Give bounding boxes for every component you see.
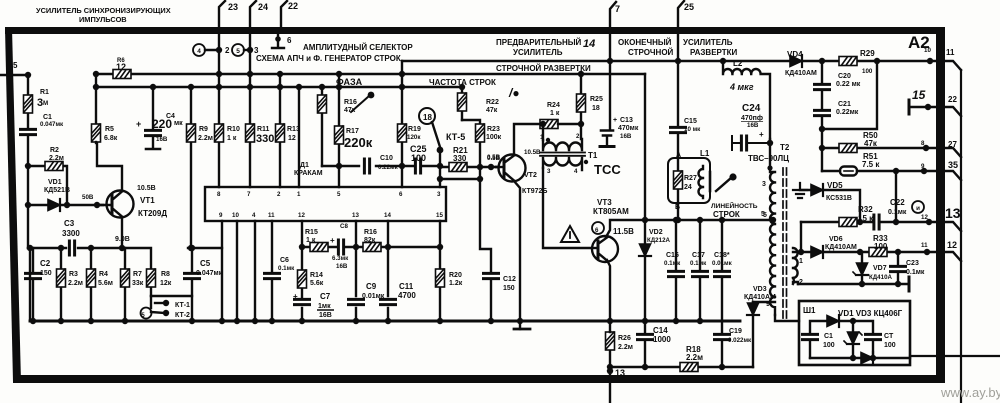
svg-text:0.1мк: 0.1мк bbox=[690, 260, 707, 267]
capacitor C23 bbox=[897, 252, 899, 284]
rail y74 bbox=[96, 73, 645, 75]
node dot 61,248 bbox=[58, 245, 64, 251]
svg-text:R26: R26 bbox=[618, 335, 631, 342]
resistor R26 bbox=[609, 332, 611, 367]
transistor VT1 bbox=[107, 191, 134, 218]
wire node 5 bbox=[0, 74, 28, 76]
svg-text:VD1: VD1 bbox=[48, 179, 62, 186]
circled 5 bbox=[232, 44, 244, 56]
svg-text:1: 1 bbox=[799, 258, 803, 265]
svg-text:1.2к: 1.2к bbox=[449, 280, 463, 287]
capacitor C25 bbox=[415, 159, 420, 173]
resistor R17 bbox=[338, 74, 340, 187]
test point KT-2 bbox=[151, 312, 164, 313]
svg-text:4: 4 bbox=[574, 168, 578, 175]
diode VD2r zener vertical bbox=[852, 344, 854, 358]
svg-text:C11: C11 bbox=[399, 282, 414, 291]
inductor L1 bbox=[699, 166, 704, 198]
svg-text:12: 12 bbox=[288, 135, 296, 142]
svg-text:ИМПУЛЬСОВ: ИМПУЛЬСОВ bbox=[79, 15, 127, 24]
svg-text:C10: C10 bbox=[380, 155, 393, 162]
row y252 bbox=[798, 251, 936, 253]
wire VT2 emitter bbox=[514, 181, 520, 321]
svg-text:УСИЛИТЕЛЬ: УСИЛИТЕЛЬ bbox=[683, 38, 733, 47]
svg-text:18: 18 bbox=[423, 113, 432, 122]
wire hook ext 35 bbox=[945, 171, 961, 180]
svg-text:15: 15 bbox=[912, 88, 926, 102]
svg-text:АМПЛИТУДНЫЙ СЕЛЕКТОР: АМПЛИТУДНЫЙ СЕЛЕКТОР bbox=[303, 43, 413, 52]
svg-text:23: 23 bbox=[228, 2, 238, 12]
svg-text:100: 100 bbox=[823, 342, 835, 349]
svg-text:C1: C1 bbox=[824, 333, 833, 340]
svg-text:1: 1 bbox=[540, 134, 544, 141]
wire node B to y220 bbox=[677, 203, 679, 220]
wire R2 row bbox=[28, 166, 67, 205]
svg-text:2.2м: 2.2м bbox=[68, 280, 83, 287]
svg-text:Б: Б bbox=[675, 204, 680, 211]
terminal bar right of row284 bbox=[908, 277, 911, 291]
svg-text:R2: R2 bbox=[50, 147, 59, 154]
svg-text:2: 2 bbox=[576, 133, 580, 140]
svg-text:16В: 16В bbox=[336, 263, 348, 270]
resistor R9 bbox=[190, 87, 192, 248]
T2 bottom into rectifier bbox=[775, 315, 799, 321]
circled 4 bbox=[193, 44, 205, 56]
bottom sub-row y367 bbox=[610, 366, 753, 368]
diode VD1r bbox=[827, 315, 839, 327]
diode VD3 bbox=[752, 302, 754, 367]
wire pin11 col / capacitor C6 bbox=[271, 221, 273, 321]
node dot 28,205 bbox=[25, 202, 31, 208]
svg-text:C17: C17 bbox=[692, 252, 705, 259]
svg-text:R4: R4 bbox=[99, 271, 108, 278]
svg-text:0.22 мк: 0.22 мк bbox=[836, 81, 861, 88]
svg-text:5.6м: 5.6м bbox=[98, 280, 113, 287]
lead 25 bbox=[678, 1, 684, 28]
svg-text:6: 6 bbox=[399, 191, 403, 198]
wire C21 box right bbox=[822, 61, 877, 129]
svg-text:330: 330 bbox=[453, 154, 467, 163]
L1 box bbox=[668, 158, 710, 203]
resistor R15 bbox=[310, 243, 328, 252]
svg-text:5.6к: 5.6к bbox=[310, 280, 324, 287]
svg-text:R32: R32 bbox=[858, 205, 873, 214]
wire VT3 collector bbox=[606, 220, 773, 237]
wire hook ext 13 bbox=[945, 222, 961, 231]
svg-text:КРАКАМ: КРАКАМ bbox=[294, 170, 323, 177]
node dot 28,166 bbox=[25, 163, 31, 169]
svg-text:3300: 3300 bbox=[62, 229, 80, 238]
resistor R25 bbox=[580, 74, 582, 139]
svg-text:РАЗВЕРТКИ: РАЗВЕРТКИ bbox=[690, 48, 738, 57]
svg-text:11: 11 bbox=[268, 212, 275, 219]
resistor R6 bbox=[113, 70, 131, 79]
wire hook ext 11 bbox=[945, 61, 961, 70]
resistor R51 row bbox=[822, 170, 936, 172]
svg-text:14: 14 bbox=[384, 212, 391, 219]
IC U1 box bbox=[205, 187, 446, 221]
capacitor C24 bbox=[732, 136, 770, 150]
svg-text:27: 27 bbox=[948, 140, 957, 149]
svg-text:12к: 12к bbox=[160, 280, 172, 287]
svg-text:47к: 47к bbox=[864, 139, 878, 148]
wire hook ext 27 bbox=[945, 148, 961, 157]
svg-text:9: 9 bbox=[921, 163, 925, 170]
svg-text:0.01мк: 0.01мк bbox=[712, 260, 733, 267]
svg-text:СТРОЧНОЙ РАЗВЕРТКИ: СТРОЧНОЙ РАЗВЕРТКИ bbox=[496, 64, 591, 73]
svg-text:R19: R19 bbox=[408, 126, 421, 133]
svg-text:9: 9 bbox=[766, 301, 770, 308]
capacitor C16 bbox=[675, 220, 677, 321]
svg-text:ПРЕДВАРИТЕЛЬНЫЙ: ПРЕДВАРИТЕЛЬНЫЙ bbox=[496, 38, 582, 47]
svg-text:C15: C15 bbox=[684, 118, 697, 125]
T2 polarity dot bbox=[767, 165, 772, 170]
svg-text:5: 5 bbox=[761, 211, 765, 218]
svg-text:R29: R29 bbox=[860, 49, 875, 58]
svg-text:КД212А: КД212А bbox=[647, 237, 671, 244]
svg-text:220к: 220к bbox=[344, 135, 373, 150]
svg-text:C9: C9 bbox=[366, 282, 377, 291]
diode VD3r bbox=[861, 352, 873, 364]
svg-text:0.22мк: 0.22мк bbox=[836, 109, 859, 116]
svg-text:470мк: 470мк bbox=[618, 125, 639, 132]
wire 13 exit down bbox=[609, 321, 611, 403]
capacitor C18 bbox=[721, 220, 723, 321]
ground VT2 emitter bbox=[514, 328, 530, 331]
svg-text:5: 5 bbox=[236, 48, 240, 55]
resistor R23 bbox=[479, 142, 481, 167]
row y222 bbox=[801, 221, 936, 223]
svg-text:4 мкг: 4 мкг bbox=[729, 82, 754, 92]
svg-text:6.8к: 6.8к bbox=[104, 135, 118, 142]
resistor R13 col bbox=[279, 74, 281, 187]
svg-text:8: 8 bbox=[921, 140, 925, 147]
wire row y62 bbox=[402, 60, 936, 62]
svg-text:R13: R13 bbox=[287, 126, 300, 133]
resistor R16 trimmer bbox=[321, 87, 323, 166]
wire row222 left drop bbox=[800, 222, 802, 252]
capacitor C1 bbox=[21, 129, 36, 134]
svg-text:R15: R15 bbox=[305, 229, 318, 236]
wire pin1 col bbox=[298, 87, 300, 187]
wire VT3 emitter bbox=[607, 260, 610, 321]
svg-text:4: 4 bbox=[252, 212, 256, 219]
resistor R18 bbox=[680, 363, 698, 372]
svg-text:С8: С8 bbox=[340, 223, 348, 230]
svg-text:12: 12 bbox=[921, 214, 928, 221]
svg-text:10 мк: 10 мк bbox=[684, 126, 701, 133]
capacitor C3 bbox=[69, 241, 74, 255]
svg-text:15 к: 15 к bbox=[858, 214, 874, 223]
resistor R2 bbox=[45, 162, 63, 171]
T1 pin dots bbox=[546, 138, 550, 142]
svg-text:СХЕМА АПЧ и Ф. ГЕНЕРАТОР СТРОК: СХЕМА АПЧ и Ф. ГЕНЕРАТОР СТРОК bbox=[256, 54, 401, 63]
svg-text:+: + bbox=[330, 236, 335, 245]
svg-text:1 к: 1 к bbox=[306, 237, 316, 244]
svg-text:7.5 к: 7.5 к bbox=[862, 160, 880, 169]
svg-text:КТ-1: КТ-1 bbox=[175, 302, 190, 309]
svg-text:7: 7 bbox=[247, 191, 251, 198]
svg-text:L2: L2 bbox=[733, 59, 743, 68]
capacitor C20 bbox=[821, 61, 823, 171]
inductor L2 bbox=[723, 61, 770, 139]
svg-text:47к: 47к bbox=[344, 107, 356, 114]
T1 core bbox=[540, 153, 585, 156]
svg-text:6: 6 bbox=[287, 36, 292, 45]
capacitor C13 on lead7 col bbox=[609, 34, 611, 129]
transistor VT3 bbox=[592, 236, 618, 262]
svg-text:100: 100 bbox=[862, 68, 873, 75]
svg-text:ЛИНЕЙНОСТЬ: ЛИНЕЙНОСТЬ bbox=[711, 201, 758, 210]
svg-text:C18*: C18* bbox=[714, 252, 730, 259]
svg-text:6.3мк: 6.3мк bbox=[332, 255, 349, 262]
svg-text:КТ-2: КТ-2 bbox=[175, 312, 190, 319]
wire R51 junction down bbox=[895, 171, 897, 222]
svg-text:0.022мк: 0.022мк bbox=[728, 337, 752, 344]
svg-text:мк: мк bbox=[174, 120, 183, 127]
svg-text:VT1: VT1 bbox=[140, 196, 155, 205]
node dot 192,248 bbox=[189, 245, 195, 251]
svg-text:24: 24 bbox=[258, 2, 268, 12]
node dot 30,248 bbox=[27, 245, 33, 251]
svg-text:10: 10 bbox=[232, 212, 239, 219]
diode VD5 bbox=[800, 190, 860, 222]
rectifier box U1 bbox=[799, 301, 910, 365]
svg-text:12: 12 bbox=[947, 240, 957, 250]
svg-text:12: 12 bbox=[116, 62, 126, 72]
wire KT stub bbox=[150, 296, 152, 308]
capacitor C21 bbox=[815, 110, 830, 115]
svg-text:5: 5 bbox=[13, 61, 18, 70]
svg-text:18: 18 bbox=[592, 105, 600, 112]
resistor R22 bbox=[461, 87, 463, 120]
svg-text:9.0В: 9.0В bbox=[115, 236, 130, 243]
node dots bus mid bbox=[219, 318, 225, 324]
svg-text:13: 13 bbox=[352, 212, 359, 219]
svg-text:VD4: VD4 bbox=[787, 50, 803, 59]
svg-text:VD6: VD6 bbox=[829, 236, 843, 243]
row y247 bbox=[302, 246, 440, 248]
wire T1 pin1 stub bbox=[542, 124, 544, 140]
resistor R11 col (lead 24) bbox=[249, 34, 251, 187]
svg-text:0.1мк: 0.1мк bbox=[278, 265, 295, 272]
resistor R16b bbox=[363, 243, 381, 252]
lead 22 bbox=[281, 1, 287, 28]
svg-text:11: 11 bbox=[921, 242, 928, 249]
svg-text:КТ-5: КТ-5 bbox=[446, 132, 465, 142]
svg-text:R27: R27 bbox=[684, 175, 697, 182]
capacitor C19 bbox=[721, 321, 723, 367]
svg-text:120к: 120к bbox=[407, 134, 421, 141]
svg-text:150: 150 bbox=[40, 270, 52, 277]
svg-text:R17: R17 bbox=[346, 128, 359, 135]
svg-text:КД410АМ: КД410АМ bbox=[825, 244, 857, 251]
svg-text:R9: R9 bbox=[199, 126, 208, 133]
lead 23 bbox=[219, 1, 225, 28]
svg-text:6: 6 bbox=[595, 227, 599, 234]
svg-text:КД410АМ: КД410АМ bbox=[785, 70, 817, 77]
svg-text:2.2м: 2.2м bbox=[618, 344, 633, 351]
svg-text:R25: R25 bbox=[590, 96, 603, 103]
svg-text:82к: 82к bbox=[364, 237, 376, 244]
svg-text:ОКОНЕЧНЫЙ: ОКОНЕЧНЫЙ bbox=[618, 38, 672, 47]
svg-text:3: 3 bbox=[762, 181, 766, 188]
svg-text:2.2м: 2.2м bbox=[49, 155, 64, 162]
svg-text:1 к: 1 к bbox=[550, 110, 560, 117]
wire pin9 col bbox=[221, 221, 223, 321]
node dot 96,87 bbox=[93, 84, 99, 90]
svg-text:11.5В: 11.5В bbox=[613, 227, 634, 236]
resistor R10 col (lead 23) bbox=[218, 34, 220, 187]
svg-text:15: 15 bbox=[436, 212, 443, 219]
wire KT row bbox=[151, 295, 192, 297]
T2 tap 9 wire to VD3 bbox=[753, 301, 775, 303]
svg-text:СТРОЧНОЙ: СТРОЧНОЙ bbox=[628, 48, 674, 57]
svg-text:Т1: Т1 bbox=[588, 151, 598, 160]
svg-text:0.1мк: 0.1мк bbox=[906, 269, 925, 276]
svg-text:10.5В: 10.5В bbox=[137, 185, 156, 192]
resistor R29 bbox=[839, 57, 857, 66]
capacitor C7 electrolytic bbox=[295, 299, 310, 304]
capacitor C8 bbox=[338, 240, 343, 254]
node dot base VT1 bbox=[94, 202, 100, 208]
svg-text:25: 25 bbox=[684, 2, 694, 12]
svg-text:+: + bbox=[293, 292, 298, 301]
capacitor C9 bbox=[349, 299, 364, 304]
wire C10 row bbox=[322, 165, 440, 167]
svg-text:1мк: 1мк bbox=[318, 303, 331, 310]
svg-text:12: 12 bbox=[298, 212, 305, 219]
svg-text:C19: C19 bbox=[729, 328, 742, 335]
wire R8 col jog bbox=[124, 248, 151, 269]
svg-text:C13: C13 bbox=[620, 117, 633, 124]
svg-text:+: + bbox=[136, 119, 141, 129]
svg-text:КС531В: КС531В bbox=[826, 195, 852, 202]
wire col x30 lower bbox=[29, 248, 31, 321]
svg-text:ФАЗА: ФАЗА bbox=[336, 77, 363, 87]
svg-text:VD7: VD7 bbox=[873, 265, 887, 272]
svg-text:C2: C2 bbox=[40, 259, 51, 268]
wire pin10 col bbox=[236, 221, 238, 321]
ground VD5 bbox=[793, 183, 807, 198]
wire rect box inner top bbox=[810, 321, 873, 334]
svg-text:ТВС–90ЛЦ: ТВС–90ЛЦ bbox=[748, 154, 789, 163]
resistor R8 bbox=[150, 287, 152, 296]
svg-text:150: 150 bbox=[503, 285, 515, 292]
diode VD4 bbox=[790, 55, 802, 67]
transistor VT2 bbox=[499, 155, 526, 182]
svg-text:16В: 16В bbox=[156, 136, 168, 143]
wire col x28 bbox=[27, 75, 29, 248]
svg-text:35: 35 bbox=[948, 160, 958, 170]
frame left bar bbox=[5, 28, 21, 382]
svg-text:14: 14 bbox=[583, 38, 595, 50]
svg-text:13: 13 bbox=[945, 205, 961, 221]
wire R5 col top bbox=[95, 74, 97, 124]
wire VT2 collector bbox=[514, 124, 540, 155]
warning triangle bbox=[561, 226, 579, 242]
ground bus main bbox=[30, 320, 740, 323]
terminal 6 bbox=[272, 34, 284, 48]
capacitor C17 bbox=[699, 220, 701, 321]
resistor R1 bbox=[24, 95, 33, 113]
svg-text:0.1мк: 0.1мк bbox=[664, 260, 681, 267]
svg-text:2.2м: 2.2м bbox=[198, 135, 213, 142]
capacitor C10 bbox=[364, 159, 369, 173]
resistor R21 row bbox=[440, 166, 496, 168]
wire external vertical bus bbox=[960, 70, 962, 403]
svg-text:www.ay.by: www.ay.by bbox=[940, 385, 1000, 400]
svg-text:+: + bbox=[613, 117, 617, 124]
wire pin14 col bbox=[387, 221, 389, 321]
svg-text:16В: 16В bbox=[319, 312, 332, 319]
svg-text:C12: C12 bbox=[503, 276, 516, 283]
svg-text:М: М bbox=[43, 100, 48, 107]
svg-text:100к: 100к bbox=[486, 134, 502, 141]
svg-text:C5: C5 bbox=[200, 259, 211, 268]
svg-text:КТ805АМ: КТ805АМ bbox=[593, 207, 629, 216]
diode VD1 bbox=[48, 199, 60, 211]
svg-text:R10: R10 bbox=[227, 126, 240, 133]
resistor R5 bbox=[92, 124, 101, 142]
svg-text:13: 13 bbox=[615, 368, 625, 378]
svg-text:470пф: 470пф bbox=[741, 115, 763, 122]
node dots bus left bbox=[30, 318, 36, 324]
svg-text:33к: 33к bbox=[132, 280, 144, 287]
wire pin15 col / resistor R20 bbox=[439, 221, 441, 321]
svg-text:C24: C24 bbox=[742, 103, 761, 114]
svg-text:100: 100 bbox=[874, 242, 888, 251]
svg-text:220: 220 bbox=[152, 117, 172, 131]
svg-text:Ш1: Ш1 bbox=[803, 306, 816, 315]
svg-text:R5: R5 bbox=[105, 126, 114, 133]
wire pin13 col bbox=[355, 221, 357, 321]
wire hook ext 22 bbox=[945, 107, 961, 116]
capacitor C2 bbox=[32, 248, 34, 321]
wire C12 jog bbox=[440, 167, 491, 321]
svg-text:0.5В: 0.5В bbox=[487, 155, 501, 162]
transformer T2 left winding bbox=[770, 139, 775, 315]
resistor R3 bbox=[60, 248, 62, 321]
wire VT1 collector bbox=[97, 143, 122, 191]
svg-text:C21: C21 bbox=[838, 101, 851, 108]
svg-text:0.047мк: 0.047мк bbox=[40, 121, 64, 128]
frame right bar bbox=[936, 27, 945, 383]
svg-text:4: 4 bbox=[197, 48, 201, 55]
svg-text:VT3: VT3 bbox=[597, 198, 612, 207]
lead 7 bbox=[610, 2, 616, 28]
resistor R50 row bbox=[822, 147, 936, 149]
capacitor C2r bbox=[866, 334, 881, 339]
svg-text:1000: 1000 bbox=[653, 335, 671, 344]
svg-text:/●: /● bbox=[508, 86, 520, 100]
svg-text:КТ209Д: КТ209Д bbox=[138, 209, 167, 218]
wire C5 top stub bbox=[188, 247, 222, 249]
svg-text:R16: R16 bbox=[344, 99, 357, 106]
resistor R4 bbox=[90, 248, 92, 321]
resistor R32 bbox=[839, 218, 857, 227]
node dot 91,248 bbox=[88, 245, 94, 251]
resistor R24 bbox=[540, 120, 558, 129]
svg-text:0.1мк: 0.1мк bbox=[888, 209, 907, 216]
node dot 122,248 bbox=[119, 245, 125, 251]
node dot 28,75 bbox=[25, 72, 31, 78]
transformer T1 secondary bbox=[543, 158, 582, 170]
svg-text:16В: 16В bbox=[747, 122, 759, 129]
svg-text:47к: 47к bbox=[486, 107, 498, 114]
diode VD6 bbox=[811, 246, 823, 258]
capacitor C11 bbox=[381, 299, 396, 304]
